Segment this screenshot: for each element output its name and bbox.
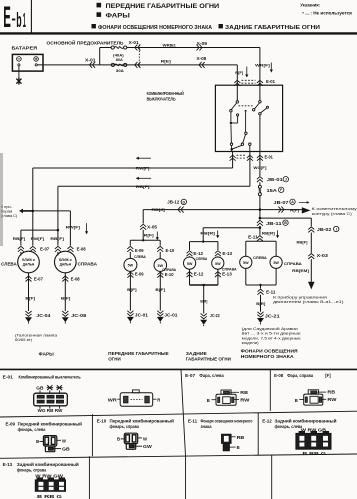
- svg-text:B RB G: B RB G: [302, 451, 327, 456]
- svg-text:фонарь, слева: фонарь, слева: [18, 427, 46, 432]
- svg-text:30A: 30A: [116, 69, 124, 73]
- svg-text:ОГНИ: ОГНИ: [108, 357, 121, 362]
- svg-text:80A: 80A: [116, 58, 123, 62]
- svg-text:Комбинированный выключатель: Комбинированный выключатель: [19, 375, 82, 380]
- svg-text:E-01: E-01: [265, 154, 274, 159]
- svg-text:(для Саудовской Аравии: (для Саудовской Аравии: [242, 327, 298, 331]
- svg-text:B[R]: B[R]: [256, 301, 266, 306]
- svg-text:B RB G: B RB G: [37, 494, 63, 499]
- svg-text:ЗАДНИЕ: ЗАДНИЕ: [186, 351, 207, 356]
- svg-text:JC-04: JC-04: [36, 313, 51, 318]
- svg-text:модели): модели): [242, 341, 260, 345]
- svg-text:E-09: E-09: [6, 422, 16, 427]
- svg-text:GB: GB: [36, 386, 43, 391]
- svg-text:B: B: [295, 398, 298, 403]
- svg-text:60/65 вт): 60/65 вт): [15, 337, 33, 342]
- svg-text:JB-07: JB-07: [274, 200, 290, 205]
- svg-text:(40A): (40A): [113, 53, 124, 57]
- svg-text:W: W: [62, 439, 66, 444]
- svg-text:B: B: [237, 445, 240, 450]
- svg-text:X-08: X-08: [197, 56, 207, 61]
- svg-text:E-12: E-12: [194, 271, 204, 276]
- svg-text:E-08: E-08: [77, 247, 87, 252]
- svg-text:JB-01: JB-01: [267, 177, 284, 182]
- svg-text:B: B: [284, 221, 287, 225]
- svg-text:X-09: X-09: [197, 41, 208, 46]
- svg-text:b: b: [16, 9, 21, 32]
- svg-text:ФАРЫ: ФАРЫ: [106, 13, 130, 20]
- svg-text:WR[F]: WR[F]: [255, 63, 270, 68]
- svg-text:RB[J]: RB[J]: [152, 207, 166, 212]
- svg-text:БЛИЖ и: БЛИЖ и: [22, 258, 35, 262]
- svg-text:JB-02: JB-02: [317, 227, 332, 232]
- svg-text:ПЕРЕДНИЕ ГАБАРИТНЫЕ ОГНИ: ПЕРЕДНИЕ ГАБАРИТНЫЕ ОГНИ: [106, 3, 220, 10]
- svg-text:ФОНАРИ ОСВЕЩЕНИЯ НОМЕРНОГО ЗНА: ФОНАРИ ОСВЕЩЕНИЯ НОМЕРНОГО ЗНАКА: [98, 25, 213, 31]
- svg-text:E-13: E-13: [222, 251, 232, 256]
- svg-text:фонарь, справа: фонарь, справа: [17, 467, 47, 472]
- svg-text:RW[F]: RW[F]: [31, 236, 45, 241]
- svg-text:СПРАВА: СПРАВА: [78, 262, 98, 267]
- svg-text:JC-23: JC-23: [210, 313, 220, 318]
- svg-text:ДАЛЬН: ДАЛЬН: [60, 262, 72, 266]
- svg-text:R: R: [157, 397, 160, 402]
- svg-text:WG RB RW: WG RB RW: [38, 408, 64, 413]
- svg-text:X-01: X-01: [129, 40, 140, 45]
- svg-text:RW: RW: [327, 397, 336, 402]
- svg-text:JB-12: JB-12: [167, 200, 180, 205]
- svg-text:5W: 5W: [215, 262, 221, 266]
- svg-text:БЛИЖ и: БЛИЖ и: [59, 258, 72, 262]
- svg-text:8вт ... 3-х и 5-ти дверные: 8вт ... 3-х и 5-ти дверные: [242, 332, 301, 336]
- svg-text:RB: RB: [237, 435, 245, 440]
- svg-text:E-10: E-10: [166, 248, 175, 253]
- svg-text:Задний комбинированный: Задний комбинированный: [17, 462, 79, 467]
- svg-text:GB: GB: [62, 446, 70, 451]
- svg-text:RB[R]: RB[R]: [262, 230, 276, 235]
- svg-text:(глава C): (глава C): [1, 213, 18, 218]
- svg-text:RB[F]: RB[F]: [50, 236, 64, 241]
- svg-text:RB: RB: [240, 390, 248, 395]
- svg-text:[F]: [F]: [325, 373, 331, 378]
- svg-text:B[F]: B[F]: [25, 296, 35, 301]
- svg-text:B: B: [117, 437, 120, 442]
- svg-text:5W: 5W: [128, 264, 134, 268]
- svg-text:Фара, справа: Фара, справа: [287, 373, 313, 378]
- svg-text:WR: WR: [108, 397, 117, 402]
- svg-text:B[R]: B[R]: [200, 298, 208, 303]
- svg-text:GW: GW: [143, 444, 152, 449]
- svg-text:• ... : Не используется: • ... : Не используется: [302, 10, 352, 15]
- svg-text:БАТАРЕЯ: БАТАРЕЯ: [12, 46, 38, 51]
- svg-text:Фонари освещения номерного: Фонари освещения номерного: [201, 419, 253, 424]
- svg-text:E-11: E-11: [188, 419, 198, 424]
- svg-text:E-07: E-07: [34, 277, 44, 282]
- svg-text:15A: 15A: [267, 188, 277, 193]
- svg-text:ПЕРЕДНИЕ ГАБАРИТНЫЕ: ПЕРЕДНИЕ ГАБАРИТНЫЕ: [108, 351, 169, 356]
- svg-text:Передний комбинированный: Передний комбинированный: [18, 422, 83, 427]
- svg-text:НОМЕРНОГО ЗНАКА: НОМЕРНОГО ЗНАКА: [241, 354, 295, 359]
- svg-text:JC-08: JC-08: [71, 313, 87, 318]
- svg-text:RB[EM]: RB[EM]: [292, 268, 309, 273]
- svg-text:X-01: X-01: [85, 57, 96, 62]
- svg-text:E-13: E-13: [3, 462, 13, 467]
- svg-text:B[F]: B[F]: [61, 296, 71, 301]
- svg-text:E-07: E-07: [185, 373, 196, 378]
- svg-text:E: E: [3, 1, 11, 34]
- svg-text:B: B: [207, 398, 210, 403]
- svg-text:I: I: [336, 227, 337, 231]
- svg-text:JB-11: JB-11: [266, 221, 283, 226]
- svg-text:J: J: [285, 178, 287, 182]
- svg-text:JC-21: JC-21: [265, 313, 281, 318]
- svg-text:B[F]: B[F]: [155, 287, 165, 292]
- svg-text:5W: 5W: [273, 261, 279, 265]
- svg-text:ФОНАРИ ОСВЕЩЕНИЯ: ФОНАРИ ОСВЕЩЕНИЯ: [241, 349, 298, 354]
- svg-text:RW: RW: [240, 397, 249, 402]
- svg-text:E-01: E-01: [266, 79, 276, 84]
- svg-text:ГАБАРИТНЫЕ ОГНИ: ГАБАРИТНЫЕ ОГНИ: [186, 357, 231, 362]
- svg-text:E-11: E-11: [266, 289, 276, 294]
- svg-text:WG[F]: WG[F]: [253, 165, 267, 170]
- svg-text:W: W: [143, 436, 147, 441]
- svg-text:ФАРЫ: ФАРЫ: [39, 351, 55, 356]
- svg-text:E-08: E-08: [71, 277, 81, 282]
- svg-text:фонарь, справа: фонарь, справа: [110, 424, 140, 429]
- svg-text:СЛЕВА: СЛЕВА: [253, 255, 267, 260]
- svg-text:RB[F]: RB[F]: [136, 184, 151, 189]
- svg-text:E-09: E-09: [135, 248, 144, 253]
- svg-text:СПРАВА: СПРАВА: [284, 261, 302, 266]
- svg-text:ЗАДНИЕ ГАБАРИТНЫЕ ОГНИ: ЗАДНИЕ ГАБАРИТНЫЕ ОГНИ: [225, 25, 320, 31]
- svg-text:E-09: E-09: [135, 272, 144, 277]
- svg-text:RW[F]: RW[F]: [136, 165, 151, 170]
- svg-text:Задний комбинированный: Задний комбинированный: [275, 419, 337, 424]
- svg-text:B: B: [36, 439, 39, 444]
- svg-text:E-13: E-13: [222, 271, 232, 276]
- svg-text:WR[E]: WR[E]: [163, 42, 177, 47]
- svg-text:модели, 7,5 вт 4-х дверные: модели, 7,5 вт 4-х дверные: [242, 336, 301, 340]
- svg-text:RB[F]: RB[F]: [297, 240, 309, 245]
- svg-text:ДАЛЬН: ДАЛЬН: [23, 262, 35, 266]
- svg-text:5W: 5W: [243, 261, 249, 265]
- svg-text:5W: 5W: [187, 262, 193, 266]
- svg-text:1: 1: [23, 9, 26, 32]
- svg-text:СЛЕВА: СЛЕВА: [196, 256, 208, 261]
- svg-text:Передний комбинированный: Передний комбинированный: [110, 419, 175, 424]
- svg-text:СЛЕВА: СЛЕВА: [134, 254, 146, 259]
- svg-text:B[F]: B[F]: [127, 287, 137, 292]
- svg-text:RB: RB: [327, 390, 335, 395]
- svg-text:Указания:: Указания:: [300, 2, 320, 7]
- svg-text:двигателем (главы B-a1, -e1): двигателем (главы B-a1, -e1): [273, 299, 344, 304]
- svg-text:E-08: E-08: [274, 373, 284, 378]
- svg-text:E-12: E-12: [262, 419, 272, 424]
- svg-text:R[F]: R[F]: [235, 70, 244, 75]
- svg-text:E-10: E-10: [97, 419, 107, 424]
- svg-text:E-07: E-07: [40, 247, 50, 252]
- svg-text:ВЫКЛЮЧАТЕЛЬ: ВЫКЛЮЧАТЕЛЬ: [147, 96, 176, 101]
- svg-text:контуру (глава C): контуру (глава C): [312, 211, 353, 216]
- svg-text:знака: знака: [201, 424, 213, 429]
- svg-text:фонарь, слева: фонарь, слева: [275, 424, 303, 429]
- svg-text:R[E]: R[E]: [161, 59, 172, 64]
- svg-text:X-03: X-03: [317, 253, 329, 258]
- svg-text:E-01: E-01: [3, 375, 14, 380]
- svg-text:JC-01: JC-01: [164, 313, 178, 318]
- svg-text:R[F]: R[F]: [144, 233, 155, 238]
- svg-text:Фара, слева: Фара, слева: [199, 373, 224, 378]
- svg-text:E-10: E-10: [165, 272, 174, 277]
- svg-text:RW[F]: RW[F]: [66, 225, 81, 230]
- svg-text:JC-01: JC-01: [135, 313, 149, 318]
- svg-text:RB[F]: RB[F]: [13, 236, 26, 241]
- svg-text:D: D: [182, 200, 185, 204]
- svg-text:A: A: [291, 200, 294, 204]
- svg-text:СЛЕВА: СЛЕВА: [1, 262, 17, 267]
- svg-text:E-11: E-11: [248, 234, 258, 239]
- svg-text:X-05: X-05: [147, 224, 158, 229]
